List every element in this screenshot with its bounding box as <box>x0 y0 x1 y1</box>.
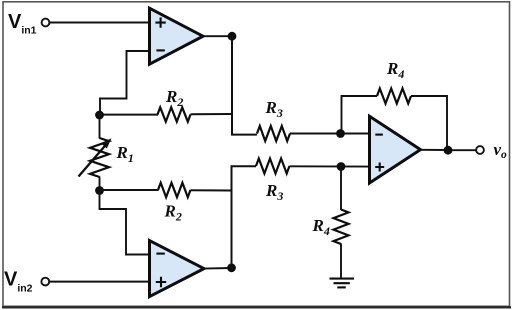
ground <box>330 279 355 288</box>
resistor R2 (top) <box>158 107 191 121</box>
terminal vo <box>476 146 484 154</box>
resistor R3 (bottom) <box>256 159 290 174</box>
wire R4 to output node <box>411 96 447 150</box>
wire U1 output <box>202 35 232 37</box>
node U3 minus junction <box>336 129 345 138</box>
node U1 output junction <box>228 32 237 41</box>
resistor R2 (bottom) <box>158 183 191 197</box>
wire R2 top to output column <box>191 113 233 115</box>
wire R1 to node B <box>99 177 101 191</box>
resistor R3 (top) <box>257 126 290 141</box>
node A junction (top of R1) <box>95 111 104 120</box>
wire U2 minus feedback <box>100 191 151 255</box>
wire node A down to R1 <box>99 115 101 139</box>
wire Vin2 to U2 + input <box>49 281 151 283</box>
wire R3 top to U3 minus input <box>290 133 370 135</box>
resistor R4 (to ground) <box>334 210 349 245</box>
border frame bottom edge <box>2 306 511 308</box>
terminal Vin1 <box>42 19 50 27</box>
node U2 output junction <box>227 263 236 272</box>
wire U2 output <box>203 267 232 270</box>
wire node B to R2 bottom <box>100 189 159 191</box>
arrow of variable resistor R1 <box>79 138 112 176</box>
wire U3 output <box>420 149 449 151</box>
wire output to terminal <box>448 149 476 151</box>
terminal Vin2 <box>41 278 49 286</box>
node output junction <box>444 146 453 155</box>
resistor R4 (feedback) <box>377 89 411 104</box>
wire U2 output up to R3 bottom <box>232 166 257 267</box>
wire R4 to ground <box>340 244 342 279</box>
wire Vin1 to U1 + input <box>50 22 151 24</box>
op-amp U1 <box>150 8 204 64</box>
wire R3 bottom to U3 plus input <box>290 165 371 167</box>
node B junction (bottom of R1) <box>95 186 104 195</box>
op-amp U2 <box>150 241 205 297</box>
wire U1 output down to R3 <box>232 36 257 134</box>
wire R4 feedback loop <box>342 96 378 134</box>
wire R2 bottom to output column <box>191 189 232 191</box>
wire node A to R2 <box>100 114 159 116</box>
wire U1 minus feedback <box>100 51 150 115</box>
resistor R1 (variable) <box>90 138 109 177</box>
wire R4 ground branch <box>340 167 342 211</box>
node U3 plus junction <box>337 162 346 171</box>
op-amp U3 <box>370 116 421 183</box>
